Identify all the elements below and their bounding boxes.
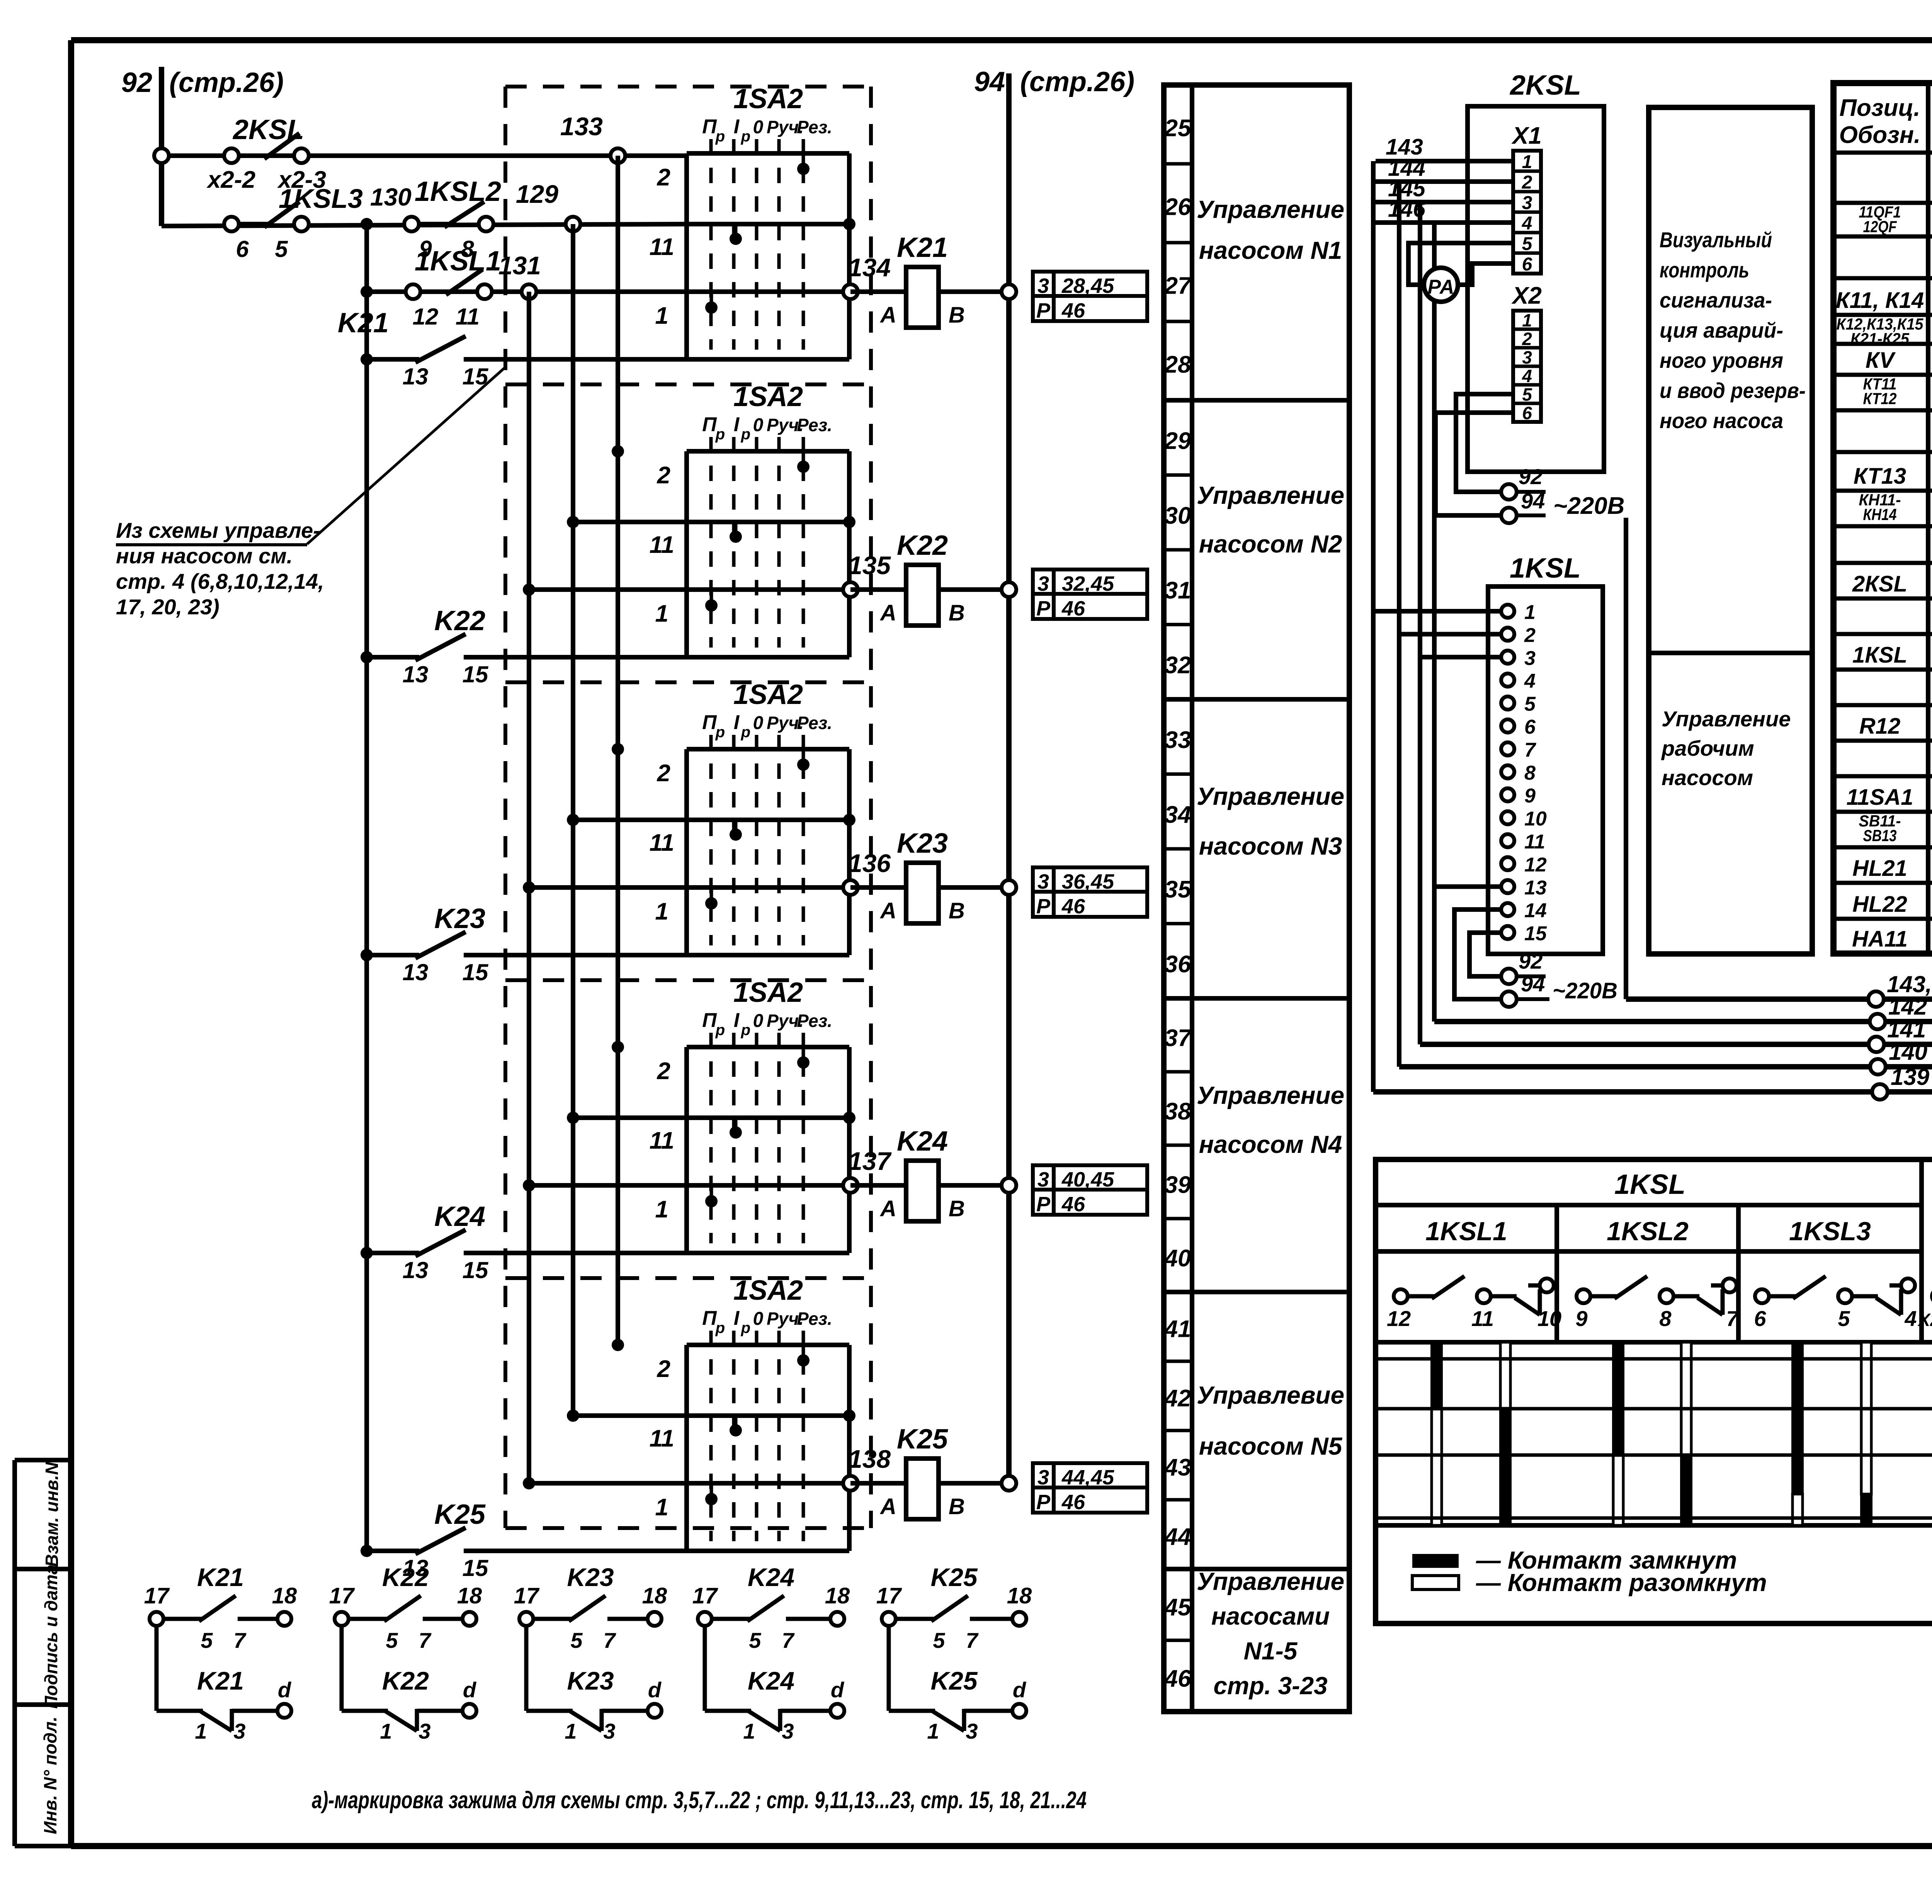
svg-text:12: 12	[1387, 1306, 1411, 1331]
svg-text:КТ13: КТ13	[1854, 464, 1906, 489]
svg-text:143, 144, 145, 146: 143, 144, 145, 146	[1887, 971, 1932, 997]
svg-text:X2: X2	[1511, 282, 1542, 309]
svg-text:7: 7	[966, 1628, 979, 1652]
svg-text:насосом N4: насосом N4	[1199, 1130, 1342, 1158]
svg-text:K23: K23	[567, 1563, 614, 1591]
svg-text:Управление: Управление	[1197, 1081, 1344, 1109]
svg-text:N1-5: N1-5	[1244, 1637, 1298, 1665]
svg-text:11SA1: 11SA1	[1846, 785, 1913, 810]
svg-text:5: 5	[386, 1628, 398, 1652]
svg-text:5: 5	[1524, 693, 1536, 716]
svg-text:0: 0	[753, 1011, 764, 1031]
svg-text:K25: K25	[930, 1563, 978, 1591]
svg-text:Из схемы управле-: Из схемы управле-	[116, 518, 320, 542]
svg-text:1KSL: 1KSL	[1614, 1169, 1685, 1200]
svg-text:18: 18	[457, 1583, 482, 1608]
svg-text:1: 1	[1522, 310, 1532, 330]
svg-text:Взам. инв.N: Взам. инв.N	[42, 1462, 62, 1567]
svg-text:Рез.: Рез.	[797, 415, 832, 435]
svg-text:9: 9	[1524, 785, 1536, 807]
svg-text:42: 42	[1164, 1385, 1191, 1412]
svg-text:18: 18	[272, 1583, 297, 1608]
svg-text:3: 3	[1522, 347, 1532, 367]
svg-text:КТ12: КТ12	[1863, 389, 1897, 408]
svg-text:~220В: ~220В	[1553, 493, 1624, 519]
svg-text:K22: K22	[382, 1563, 429, 1591]
svg-text:K25: K25	[434, 1499, 486, 1530]
svg-text:33: 33	[1165, 727, 1191, 753]
svg-text:1: 1	[743, 1719, 755, 1743]
svg-text:I: I	[734, 413, 740, 436]
svg-text:2: 2	[1524, 624, 1536, 646]
svg-text:Управление: Управление	[1197, 481, 1344, 509]
svg-text:насосом: насосом	[1662, 765, 1753, 790]
svg-text:36,45: 36,45	[1062, 870, 1114, 893]
svg-text:32: 32	[1165, 652, 1191, 678]
svg-text:12QF: 12QF	[1863, 218, 1897, 236]
svg-text:3: 3	[603, 1719, 615, 1743]
svg-text:11: 11	[1471, 1306, 1494, 1331]
svg-text:П: П	[702, 711, 717, 734]
svg-text:0: 0	[753, 415, 764, 435]
svg-text:В: В	[949, 600, 965, 626]
svg-text:3: 3	[418, 1719, 430, 1743]
svg-text:6: 6	[1524, 716, 1536, 738]
svg-text:K21: K21	[338, 308, 389, 338]
svg-text:1KSL1: 1KSL1	[415, 246, 501, 277]
svg-text:1SA2: 1SA2	[733, 977, 803, 1008]
svg-text:КV: КV	[1866, 348, 1896, 373]
svg-text:138: 138	[848, 1445, 891, 1473]
svg-text:12: 12	[413, 304, 439, 330]
svg-text:0: 0	[753, 713, 764, 733]
svg-text:11: 11	[650, 830, 674, 856]
svg-text:94: 94	[1521, 489, 1545, 513]
svg-text:34: 34	[1165, 801, 1191, 828]
svg-text:43: 43	[1164, 1454, 1191, 1481]
svg-text:Управление: Управление	[1197, 782, 1344, 810]
svg-text:5: 5	[201, 1628, 213, 1652]
svg-text:I: I	[734, 1009, 740, 1032]
svg-text:ния насосом см.: ния насосом см.	[116, 544, 293, 568]
svg-text:1KSL3: 1KSL3	[279, 184, 363, 214]
svg-text:K25: K25	[930, 1666, 978, 1695]
svg-text:Обозн.: Обозн.	[1839, 122, 1921, 148]
svg-text:15: 15	[463, 959, 489, 985]
svg-text:46: 46	[1061, 597, 1085, 620]
svg-text:П: П	[702, 1009, 717, 1032]
svg-text:7: 7	[603, 1628, 616, 1652]
svg-text:1: 1	[1522, 152, 1532, 172]
svg-text:13: 13	[1524, 877, 1547, 899]
svg-text:р: р	[741, 1022, 750, 1039]
svg-text:17: 17	[876, 1583, 902, 1608]
svg-text:0: 0	[753, 117, 764, 138]
svg-text:13: 13	[403, 959, 429, 985]
svg-text:35: 35	[1165, 876, 1192, 903]
svg-text:8: 8	[1659, 1306, 1672, 1331]
svg-text:28,45: 28,45	[1061, 274, 1114, 297]
svg-text:1SA2: 1SA2	[733, 381, 803, 412]
svg-text:15: 15	[463, 1555, 489, 1581]
svg-text:П: П	[702, 116, 717, 138]
svg-text:р: р	[741, 1319, 750, 1336]
svg-text:А: А	[879, 1196, 896, 1221]
svg-text:d: d	[278, 1678, 292, 1702]
svg-text:18: 18	[1007, 1583, 1032, 1608]
svg-text:K22: K22	[382, 1666, 429, 1695]
svg-text:44: 44	[1164, 1523, 1191, 1550]
svg-text:1SA2: 1SA2	[733, 83, 803, 114]
svg-text:13: 13	[403, 661, 429, 687]
svg-text:6: 6	[1522, 254, 1532, 275]
svg-text:K21: K21	[897, 232, 948, 263]
svg-text:18: 18	[825, 1583, 850, 1608]
svg-text:3: 3	[782, 1719, 794, 1743]
svg-text:13: 13	[403, 1257, 429, 1283]
svg-text:7: 7	[782, 1628, 795, 1652]
svg-text:K23: K23	[434, 903, 485, 934]
svg-text:17: 17	[329, 1583, 355, 1608]
svg-text:Рез.: Рез.	[797, 713, 832, 733]
svg-text:7: 7	[233, 1628, 247, 1652]
svg-text:3: 3	[1037, 1466, 1049, 1489]
svg-text:насосом N1: насосом N1	[1199, 236, 1342, 264]
svg-text:11: 11	[650, 1425, 674, 1452]
svg-text:1: 1	[655, 898, 668, 925]
svg-text:K21: K21	[197, 1563, 244, 1591]
svg-text:15: 15	[463, 1257, 489, 1283]
svg-text:5: 5	[275, 236, 288, 262]
svg-text:32,45: 32,45	[1062, 572, 1114, 595]
svg-text:31: 31	[1165, 577, 1191, 604]
svg-text:5: 5	[933, 1628, 945, 1652]
svg-text:SВ13: SВ13	[1863, 826, 1897, 845]
svg-text:94: 94	[1521, 972, 1545, 996]
svg-text:2: 2	[657, 164, 670, 191]
svg-text:X1: X1	[1511, 122, 1542, 149]
svg-text:11: 11	[1524, 831, 1545, 853]
svg-text:5: 5	[1838, 1306, 1850, 1331]
svg-text:5: 5	[1522, 384, 1532, 405]
svg-text:d: d	[463, 1678, 477, 1702]
svg-text:и ввод резерв-: и ввод резерв-	[1660, 378, 1806, 403]
svg-text:45: 45	[1164, 1594, 1192, 1621]
svg-text:насосами: насосами	[1211, 1602, 1330, 1630]
svg-text:насосом N3: насосом N3	[1199, 832, 1342, 860]
svg-text:Управлевие: Управлевие	[1197, 1381, 1344, 1409]
svg-text:130: 130	[370, 183, 412, 211]
svg-text:2: 2	[1522, 172, 1532, 193]
svg-text:А: А	[879, 898, 896, 923]
svg-text:8: 8	[1524, 762, 1536, 784]
svg-text:3: 3	[1037, 572, 1049, 595]
svg-text:НL22: НL22	[1852, 892, 1907, 917]
svg-text:I: I	[734, 711, 740, 734]
svg-text:РА: РА	[1428, 276, 1454, 298]
svg-text:d: d	[648, 1678, 662, 1702]
svg-text:I: I	[734, 116, 740, 138]
svg-text:р: р	[741, 724, 750, 741]
svg-text:1КSL: 1КSL	[1852, 643, 1907, 668]
svg-text:1KSL1: 1KSL1	[1425, 1217, 1507, 1246]
svg-text:р: р	[715, 1022, 725, 1039]
svg-text:14: 14	[1524, 899, 1547, 922]
svg-text:17: 17	[514, 1583, 540, 1608]
svg-text:3: 3	[966, 1719, 978, 1743]
svg-text:135: 135	[848, 551, 891, 580]
svg-text:2: 2	[657, 462, 670, 489]
svg-text:2: 2	[657, 1058, 670, 1085]
svg-text:К11, К14: К11, К14	[1836, 288, 1924, 313]
svg-text:15: 15	[463, 364, 489, 389]
svg-text:39: 39	[1165, 1172, 1191, 1198]
svg-text:d: d	[1013, 1678, 1027, 1702]
svg-text:X2-2: X2-2	[1917, 1310, 1932, 1330]
svg-text:Р: Р	[1036, 597, 1051, 620]
svg-text:38: 38	[1165, 1098, 1191, 1125]
svg-text:K22: K22	[434, 605, 485, 636]
svg-text:насосом N5: насосом N5	[1199, 1432, 1343, 1460]
svg-text:Р: Р	[1036, 1491, 1051, 1514]
svg-text:1SA2: 1SA2	[733, 1275, 803, 1306]
svg-text:92: 92	[1519, 949, 1543, 973]
svg-text:K24: K24	[434, 1201, 485, 1232]
svg-text:— Контакт разомкнут: — Контакт разомкнут	[1476, 1569, 1767, 1596]
svg-text:6: 6	[1754, 1306, 1766, 1331]
svg-text:А: А	[879, 1494, 896, 1519]
svg-text:141: 141	[1887, 1017, 1926, 1042]
svg-text:~220В: ~220В	[1553, 978, 1617, 1003]
svg-text:R12: R12	[1859, 714, 1900, 739]
svg-text:92: 92	[121, 67, 152, 98]
svg-text:46: 46	[1061, 299, 1085, 322]
svg-text:140: 140	[1889, 1039, 1927, 1065]
svg-text:133: 133	[560, 112, 603, 141]
svg-text:Управление: Управление	[1197, 1567, 1344, 1595]
svg-text:КН14: КН14	[1863, 505, 1897, 524]
svg-text:ного уровня: ного уровня	[1660, 348, 1783, 372]
svg-text:9: 9	[1575, 1306, 1587, 1331]
svg-text:В: В	[949, 303, 965, 328]
svg-text:K23: K23	[567, 1666, 614, 1695]
svg-text:K24: K24	[748, 1666, 794, 1695]
svg-text:94: 94	[974, 66, 1005, 97]
svg-text:А: А	[879, 600, 896, 626]
svg-text:7: 7	[1726, 1306, 1739, 1331]
svg-text:3: 3	[233, 1719, 245, 1743]
svg-text:142: 142	[1888, 994, 1927, 1020]
svg-text:2КSL: 2КSL	[1852, 571, 1907, 597]
svg-text:3: 3	[1037, 274, 1049, 297]
svg-text:5: 5	[1522, 234, 1533, 254]
svg-text:П: П	[702, 413, 717, 436]
svg-text:1: 1	[655, 600, 668, 627]
svg-text:36: 36	[1165, 951, 1191, 977]
svg-text:р: р	[715, 1319, 725, 1336]
svg-text:4: 4	[1522, 366, 1532, 386]
svg-text:Рез.: Рез.	[797, 1309, 832, 1329]
svg-text:11: 11	[650, 532, 674, 558]
svg-text:10: 10	[1524, 808, 1547, 830]
svg-text:K25: K25	[897, 1424, 948, 1455]
svg-text:18: 18	[642, 1583, 667, 1608]
svg-text:рабочим: рабочим	[1661, 736, 1754, 760]
svg-text:3: 3	[1522, 193, 1532, 213]
svg-text:П: П	[702, 1307, 717, 1329]
svg-text:41: 41	[1164, 1316, 1191, 1343]
svg-text:26: 26	[1164, 194, 1191, 221]
svg-text:В: В	[949, 1196, 965, 1221]
svg-text:р: р	[715, 724, 725, 741]
svg-text:Визуальный: Визуальный	[1660, 228, 1772, 252]
svg-text:В: В	[949, 1494, 965, 1519]
svg-text:4: 4	[1904, 1306, 1917, 1331]
svg-text:129: 129	[516, 180, 558, 208]
svg-text:Управление: Управление	[1197, 195, 1344, 223]
svg-text:92: 92	[1519, 464, 1543, 489]
svg-text:12: 12	[1524, 853, 1547, 876]
svg-text:17, 20, 23): 17, 20, 23)	[116, 595, 219, 619]
svg-text:В: В	[949, 898, 965, 923]
svg-text:17: 17	[692, 1583, 718, 1608]
svg-text:А: А	[879, 303, 896, 328]
svg-text:ного насоса: ного насоса	[1660, 408, 1783, 433]
svg-text:13: 13	[403, 364, 429, 389]
svg-text:2KSL: 2KSL	[1509, 70, 1581, 101]
svg-text:Инв. N° подл.: Инв. N° подл.	[40, 1717, 60, 1834]
svg-text:4: 4	[1524, 670, 1536, 692]
svg-text:Рез.: Рез.	[797, 1011, 832, 1031]
svg-text:46: 46	[1164, 1665, 1191, 1692]
svg-text:1KSL2: 1KSL2	[1607, 1217, 1689, 1246]
svg-text:1KSL: 1KSL	[1510, 553, 1581, 584]
svg-text:сигнализа-: сигнализа-	[1660, 288, 1772, 312]
svg-text:1KSL2: 1KSL2	[415, 176, 501, 207]
svg-text:10: 10	[1537, 1306, 1561, 1331]
svg-text:K24: K24	[897, 1126, 948, 1157]
svg-text:40,45: 40,45	[1061, 1168, 1114, 1191]
svg-text:контроль: контроль	[1660, 258, 1749, 282]
svg-text:3: 3	[1037, 1168, 1049, 1191]
svg-text:5: 5	[749, 1628, 761, 1652]
svg-text:K21: K21	[197, 1666, 244, 1695]
svg-text:7: 7	[418, 1628, 432, 1652]
svg-text:Управление: Управление	[1662, 707, 1791, 731]
svg-text:7: 7	[1524, 739, 1536, 761]
svg-text:27: 27	[1164, 273, 1192, 299]
svg-text:1: 1	[655, 1494, 668, 1521]
svg-text:2KSL: 2KSL	[232, 114, 304, 145]
svg-text:29: 29	[1164, 428, 1191, 454]
svg-text:К21-К25: К21-К25	[1850, 330, 1910, 348]
svg-text:Р: Р	[1036, 895, 1051, 918]
svg-text:р: р	[741, 128, 750, 145]
svg-text:137: 137	[848, 1147, 892, 1175]
svg-text:1: 1	[1524, 601, 1536, 624]
svg-text:6: 6	[236, 236, 249, 262]
svg-text:134: 134	[848, 253, 891, 282]
svg-text:46: 46	[1061, 1491, 1085, 1514]
svg-text:1: 1	[655, 1196, 668, 1223]
svg-text:Рез.: Рез.	[797, 117, 832, 137]
svg-text:2: 2	[1522, 329, 1532, 349]
svg-text:Подпись и дата: Подпись и дата	[41, 1565, 61, 1709]
svg-text:2: 2	[657, 760, 670, 787]
svg-text:Р: Р	[1036, 299, 1051, 322]
svg-text:ция аварий-: ция аварий-	[1660, 318, 1783, 342]
svg-text:37: 37	[1165, 1025, 1192, 1052]
svg-text:3: 3	[1037, 870, 1049, 893]
svg-text:I: I	[734, 1307, 740, 1329]
svg-text:15: 15	[463, 661, 489, 687]
svg-text:Р: Р	[1036, 1193, 1051, 1216]
svg-text:25: 25	[1164, 115, 1192, 142]
svg-text:Позиц.: Позиц.	[1839, 95, 1920, 121]
svg-text:1KSL3: 1KSL3	[1789, 1217, 1871, 1246]
svg-text:а)-маркировка зажима для схем: а)-маркировка зажима для схемы стр. 3,5,…	[312, 1787, 1087, 1814]
svg-text:р: р	[715, 128, 725, 145]
svg-text:46: 46	[1061, 1193, 1085, 1216]
svg-text:НL21: НL21	[1852, 856, 1907, 881]
svg-text:44,45: 44,45	[1061, 1466, 1114, 1489]
svg-text:2: 2	[657, 1356, 670, 1382]
svg-text:11: 11	[650, 1127, 674, 1154]
svg-text:насосом N2: насосом N2	[1199, 530, 1342, 558]
svg-text:р: р	[741, 426, 750, 443]
svg-text:46: 46	[1061, 895, 1085, 918]
svg-text:(стр.26): (стр.26)	[1020, 66, 1134, 97]
svg-text:1: 1	[195, 1719, 207, 1743]
svg-text:3: 3	[1524, 647, 1536, 670]
svg-text:5: 5	[570, 1628, 583, 1652]
svg-text:K23: K23	[897, 828, 948, 859]
svg-text:136: 136	[848, 849, 891, 877]
svg-text:1: 1	[565, 1719, 577, 1743]
svg-text:139: 139	[1891, 1064, 1930, 1090]
svg-text:1SA2: 1SA2	[733, 679, 803, 710]
svg-text:40: 40	[1164, 1245, 1191, 1272]
svg-text:стр. 4 (6,8,10,12,14,: стр. 4 (6,8,10,12,14,	[116, 569, 324, 593]
svg-text:0: 0	[753, 1309, 764, 1329]
svg-text:р: р	[715, 426, 725, 443]
svg-text:1: 1	[927, 1719, 939, 1743]
svg-text:d: d	[831, 1678, 845, 1702]
svg-text:(стр.26): (стр.26)	[169, 67, 284, 98]
svg-text:28: 28	[1164, 352, 1191, 378]
svg-text:17: 17	[144, 1583, 170, 1608]
svg-text:1: 1	[380, 1719, 392, 1743]
svg-text:K24: K24	[748, 1563, 794, 1591]
svg-text:x2-2: x2-2	[206, 167, 255, 193]
svg-text:НА11: НА11	[1852, 926, 1908, 952]
svg-text:30: 30	[1165, 502, 1191, 529]
svg-text:15: 15	[1524, 923, 1547, 945]
svg-text:11: 11	[650, 234, 674, 260]
svg-text:6: 6	[1522, 403, 1532, 423]
svg-text:4: 4	[1522, 213, 1532, 234]
svg-text:K22: K22	[897, 530, 948, 561]
svg-text:11: 11	[456, 304, 480, 330]
svg-text:стр. 3-23: стр. 3-23	[1213, 1672, 1327, 1700]
svg-text:1: 1	[655, 303, 668, 329]
